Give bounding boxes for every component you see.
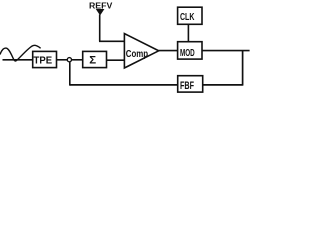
wire sigma to comparator lower input bbox=[107, 59, 125, 61]
block CLK bbox=[178, 7, 202, 24]
svg-text:MOD: MOD bbox=[180, 48, 195, 59]
block sigma bbox=[83, 51, 107, 67]
svg-text:CLK: CLK bbox=[180, 12, 195, 23]
wire feedback to FBF right side bbox=[203, 84, 243, 86]
svg-text:TPE: TPE bbox=[34, 56, 53, 67]
svg-text:REFV: REFV bbox=[89, 0, 113, 10]
wire REFV vertical bbox=[99, 15, 101, 42]
wire CLK to MOD bbox=[187, 24, 189, 41]
svg-text:Σ: Σ bbox=[89, 55, 96, 67]
wire input rail to TPE bbox=[3, 59, 33, 61]
wire junction riser down bbox=[242, 51, 244, 86]
wire feedback FBF to node riser bbox=[70, 84, 178, 86]
block TPE bbox=[33, 51, 57, 67]
svg-text:Comp: Comp bbox=[126, 49, 148, 60]
wire riser up to node bbox=[69, 62, 71, 86]
node summing junction circle bbox=[67, 58, 71, 62]
wire node to sigma bbox=[72, 59, 83, 61]
wire comparator output to MOD bbox=[159, 50, 178, 52]
input signal sine wave bbox=[0, 45, 41, 61]
block FBF bbox=[178, 76, 203, 92]
REFV arrow bbox=[96, 9, 105, 16]
wire TPE to node bbox=[57, 59, 68, 61]
block MOD bbox=[178, 42, 202, 59]
wire REFV horizontal to comparator upper input bbox=[99, 40, 124, 42]
wire MOD output to right edge bbox=[202, 50, 250, 52]
svg-text:FBF: FBF bbox=[180, 80, 194, 92]
comparator U1 triangle bbox=[124, 34, 158, 68]
